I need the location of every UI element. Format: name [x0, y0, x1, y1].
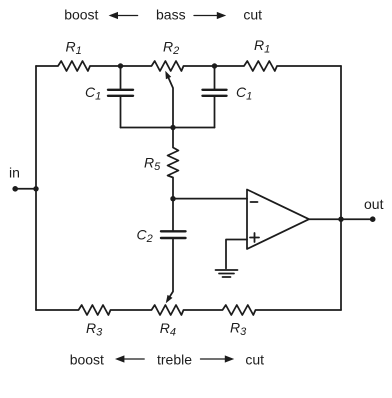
svg-text:treble: treble — [157, 351, 192, 367]
svg-text:out: out — [364, 196, 384, 212]
svg-text:boost: boost — [70, 351, 104, 367]
svg-text:boost: boost — [64, 6, 98, 22]
svg-text:in: in — [9, 165, 20, 181]
svg-text:cut: cut — [245, 351, 264, 367]
svg-text:bass: bass — [156, 6, 186, 22]
svg-text:cut: cut — [243, 6, 262, 22]
